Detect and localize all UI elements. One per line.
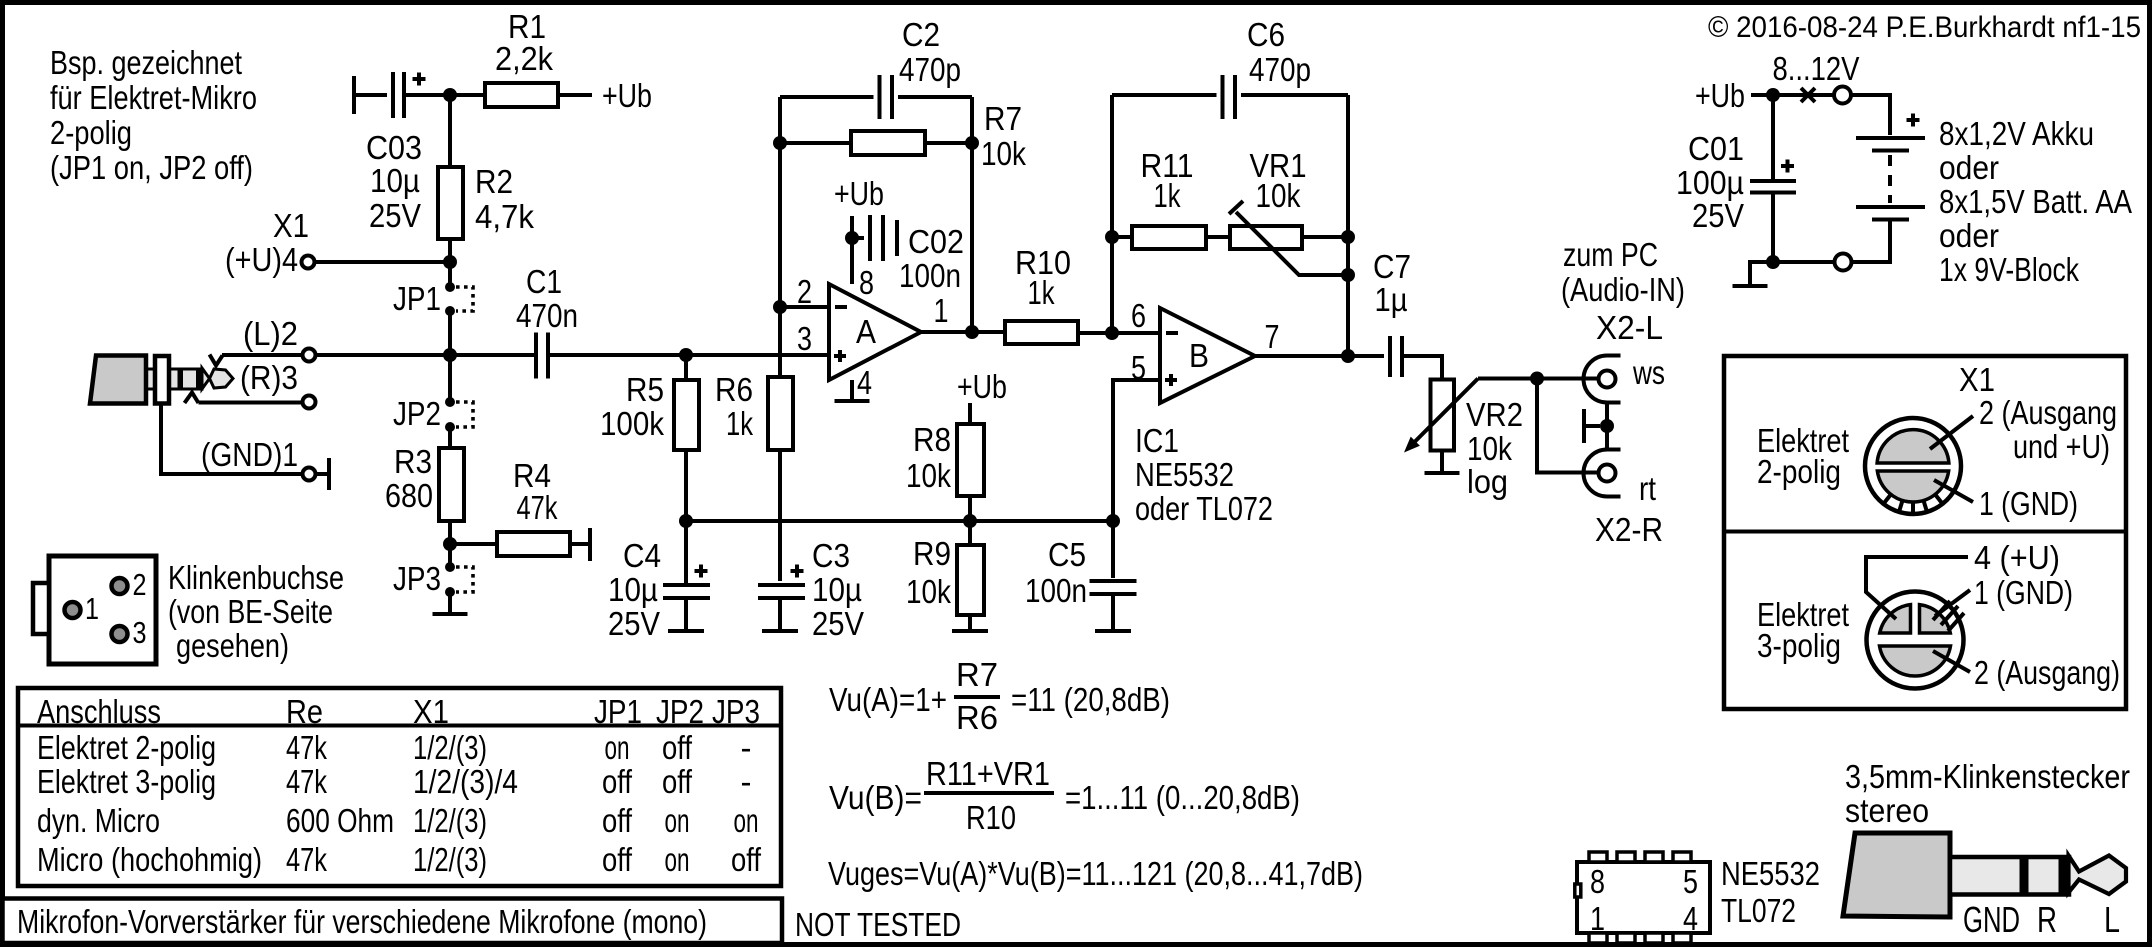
svg-text:NE5532: NE5532 xyxy=(1721,855,1820,892)
svg-text:=11 (20,8dB): =11 (20,8dB) xyxy=(1011,681,1170,718)
node rail pin5/C5 xyxy=(1106,514,1120,528)
svg-text:JP1: JP1 xyxy=(594,693,642,730)
svg-text:C4: C4 xyxy=(623,537,661,574)
R10 label xyxy=(1015,244,1071,311)
node rail R8/R9 xyxy=(963,514,977,528)
C4 label xyxy=(608,537,661,642)
svg-text:JP3: JP3 xyxy=(712,693,760,730)
table row Elektret 3-polig xyxy=(37,763,752,800)
svg-text:C03: C03 xyxy=(366,129,422,166)
svg-text:Klinkenbuchse: Klinkenbuchse xyxy=(168,559,344,596)
ground at supply xyxy=(1733,262,1774,286)
svg-text:1k: 1k xyxy=(1028,274,1055,311)
svg-text:100k: 100k xyxy=(600,405,664,442)
node C03/R1/R2 xyxy=(443,88,457,102)
ground at VR2 xyxy=(1425,471,1460,475)
IC DIP-8 package xyxy=(1575,852,1710,943)
svg-text:-: - xyxy=(741,729,752,766)
svg-text:8x1,2V Akku: 8x1,2V Akku xyxy=(1939,115,2094,152)
resistor R2 xyxy=(438,99,463,258)
svg-text:C2: C2 xyxy=(902,16,940,53)
svg-text:IC1: IC1 xyxy=(1135,422,1179,459)
x connection mark xyxy=(1801,88,1815,102)
resistor R1 xyxy=(454,83,592,107)
node R7 left xyxy=(773,136,787,150)
svg-text:+Ub: +Ub xyxy=(834,175,884,212)
terminal (GND)1 xyxy=(303,468,316,481)
R5 label xyxy=(600,371,664,442)
resistor R7 xyxy=(784,131,968,155)
svg-text:1: 1 xyxy=(934,292,949,329)
elektret 3-pin connector drawing xyxy=(1867,592,1964,689)
svg-text:25V: 25V xyxy=(369,197,421,234)
node main line / JP chain xyxy=(443,348,457,362)
ground at C4 xyxy=(668,629,704,633)
label 3,5mm-Klinkenstecker stereo xyxy=(1845,758,2130,829)
wire C1 to R5 node and op-amp A pin 3 xyxy=(550,353,829,357)
table row Elektret 2-polig xyxy=(37,729,752,766)
title bar box xyxy=(3,899,783,944)
capacitor C3 xyxy=(758,585,805,629)
leader pin 2 xyxy=(1930,416,1973,449)
svg-text:4 (+U): 4 (+U) xyxy=(1974,539,2060,576)
svg-text:X1: X1 xyxy=(413,693,449,730)
node pin2/R6/feedback xyxy=(773,300,787,314)
potentiometer VR2 xyxy=(1431,380,1455,451)
svg-text:X1: X1 xyxy=(273,207,309,244)
case tab hatch marks xyxy=(1933,601,1964,631)
leader pin 1 xyxy=(1934,480,1973,502)
jumper JP2 xyxy=(445,359,473,448)
svg-text:1 (GND): 1 (GND) xyxy=(1979,485,2078,522)
VR1 label xyxy=(1250,147,1307,214)
3.5mm plug shaft xyxy=(1950,857,2069,895)
svg-text:1/2/(3)/4: 1/2/(3)/4 xyxy=(413,763,518,800)
wire op-amp A output xyxy=(921,330,1005,334)
3.5mm plug ring band 1 xyxy=(2020,855,2029,897)
svg-text:R6: R6 xyxy=(956,699,998,736)
svg-text:Vu(A)=1+: Vu(A)=1+ xyxy=(829,681,947,718)
svg-text:log: log xyxy=(1467,463,1508,500)
svg-text:C6: C6 xyxy=(1247,16,1285,53)
terminal (R)3 xyxy=(303,396,316,409)
X2 shield ground tab xyxy=(1584,409,1600,443)
R4 label xyxy=(513,457,558,526)
resistor R8 xyxy=(957,403,984,517)
bias rail wire xyxy=(686,519,1113,523)
svg-text:(Audio-IN): (Audio-IN) xyxy=(1561,271,1685,308)
svg-text:Elektret 3-polig: Elektret 3-polig xyxy=(37,763,216,800)
svg-text:off: off xyxy=(662,763,693,800)
svg-text:2-polig: 2-polig xyxy=(50,114,132,151)
3.5mm plug body xyxy=(1843,833,1950,917)
R11 label xyxy=(1141,147,1194,214)
leader pin 2 ausgang xyxy=(1933,651,1970,672)
svg-text:R9: R9 xyxy=(913,535,951,572)
X1 pinout box xyxy=(1724,356,2126,709)
svg-text:100µ: 100µ xyxy=(1676,164,1744,201)
leader pin 4 xyxy=(1866,557,1968,619)
svg-text:=1...11 (0...20,8dB): =1...11 (0...20,8dB) xyxy=(1065,779,1300,816)
wire op-amp A pin 2 xyxy=(784,305,829,309)
resistor R9 xyxy=(957,525,984,629)
svg-text:off: off xyxy=(662,729,693,766)
C3 polarity plus xyxy=(791,565,804,578)
svg-text:8...12V: 8...12V xyxy=(1773,50,1860,87)
svg-text:stereo: stereo xyxy=(1845,792,1929,829)
U1B inverting input symbol xyxy=(1166,331,1178,335)
svg-text:680: 680 xyxy=(385,477,433,514)
svg-text:25V: 25V xyxy=(812,605,864,642)
svg-text:JP2: JP2 xyxy=(656,693,704,730)
svg-text:Vu(B)=: Vu(B)= xyxy=(829,779,922,816)
table row dyn. Micro xyxy=(37,802,759,839)
capacitor C02 xyxy=(856,215,897,261)
wire battery top xyxy=(1851,95,1890,135)
C5 label xyxy=(1025,536,1087,609)
node X2 shells xyxy=(1600,419,1614,433)
R8 label xyxy=(906,421,951,494)
svg-text:2-polig: 2-polig xyxy=(1757,453,1841,490)
svg-text:X2-R: X2-R xyxy=(1595,511,1663,548)
wire +Ub to node xyxy=(1751,93,1769,97)
svg-text:8: 8 xyxy=(1590,863,1605,900)
svg-text:für Elektret-Mikro: für Elektret-Mikro xyxy=(50,79,257,116)
svg-text:1k: 1k xyxy=(726,405,753,442)
svg-text:10µ: 10µ xyxy=(608,571,658,608)
jack contact L xyxy=(210,355,223,366)
svg-text:10k: 10k xyxy=(1256,177,1301,214)
C3 label xyxy=(812,537,864,642)
Klinkenbuchse label xyxy=(168,559,344,664)
jumper JP3 xyxy=(445,562,473,597)
svg-text:2: 2 xyxy=(797,273,812,310)
battery choice labels xyxy=(1939,115,2132,288)
svg-text:NE5532: NE5532 xyxy=(1135,456,1234,493)
wire R3 to JP3 xyxy=(448,521,452,563)
svg-text:+Ub: +Ub xyxy=(957,368,1007,405)
svg-text:GND: GND xyxy=(1963,899,2020,940)
wire VR2 wiper to X2 xyxy=(1478,377,1599,381)
svg-text:off: off xyxy=(602,841,633,878)
svg-text:4: 4 xyxy=(1683,900,1698,937)
node +Ub/C01 xyxy=(1766,88,1780,102)
svg-text:2 (Ausgang): 2 (Ausgang) xyxy=(1974,654,2120,691)
connector X2-L xyxy=(1584,356,1621,403)
svg-text:10k: 10k xyxy=(981,135,1026,172)
jack contact R xyxy=(185,393,199,404)
svg-text:on: on xyxy=(605,729,630,766)
svg-text:off: off xyxy=(731,841,762,878)
svg-text:470n: 470n xyxy=(516,297,578,334)
wire to battery plug xyxy=(1777,93,1834,97)
U1A inverting input symbol xyxy=(835,305,847,309)
wire L to node xyxy=(316,353,535,357)
svg-text:10k: 10k xyxy=(1467,430,1512,467)
X2 shell link wire xyxy=(1605,403,1609,450)
node R5 tap xyxy=(679,348,693,362)
R3 label xyxy=(385,443,433,514)
svg-text:(R)3: (R)3 xyxy=(240,359,298,396)
svg-text:600 Ohm: 600 Ohm xyxy=(286,802,394,839)
svg-text:Bsp. gezeichnet: Bsp. gezeichnet xyxy=(50,44,242,81)
C1 label xyxy=(516,263,578,334)
C6 label xyxy=(1247,16,1311,88)
svg-text:L: L xyxy=(2104,899,2120,940)
svg-text:8x1,5V Batt. AA: 8x1,5V Batt. AA xyxy=(1939,183,2132,220)
svg-text:10µ: 10µ xyxy=(812,571,862,608)
svg-text:10k: 10k xyxy=(906,573,951,610)
svg-text:oder: oder xyxy=(1939,149,1999,186)
svg-text:R2: R2 xyxy=(475,163,513,200)
svg-text:(L)2: (L)2 xyxy=(243,315,298,352)
svg-text:1: 1 xyxy=(85,591,99,626)
svg-text:47k: 47k xyxy=(517,489,558,526)
svg-text:NOT TESTED: NOT TESTED xyxy=(795,906,961,943)
svg-text:on: on xyxy=(665,802,690,839)
leader pin 1 gnd xyxy=(1935,590,1970,616)
connector X2-R xyxy=(1584,450,1621,497)
capacitor C2 xyxy=(780,75,972,119)
VR1 wiper arrow xyxy=(1229,201,1344,275)
svg-text:6: 6 xyxy=(1131,297,1146,334)
svg-text:2: 2 xyxy=(133,567,147,602)
svg-text:gesehen): gesehen) xyxy=(176,627,289,664)
svg-text:(JP1 on, JP2 off): (JP1 on, JP2 off) xyxy=(50,149,253,186)
IC type label xyxy=(1721,855,1820,929)
IC1 label xyxy=(1135,422,1273,527)
svg-text:R: R xyxy=(2037,899,2057,940)
node rail R5 xyxy=(679,514,693,528)
formula Vu(B) xyxy=(829,755,1300,836)
VR2 label xyxy=(1466,396,1523,500)
svg-text:X2-L: X2-L xyxy=(1596,309,1663,346)
svg-text:47k: 47k xyxy=(286,841,327,878)
connection table box xyxy=(18,688,781,886)
terminal (L)2 xyxy=(303,349,316,362)
ground at R9 xyxy=(952,629,988,633)
svg-text:A: A xyxy=(856,313,876,350)
3.5mm plug tip xyxy=(2069,856,2127,895)
svg-text:(GND)1: (GND)1 xyxy=(201,436,298,473)
svg-text:100n: 100n xyxy=(1025,572,1087,609)
R2 label xyxy=(475,163,534,235)
wire contact to terminal L xyxy=(222,353,303,357)
wire R stub xyxy=(199,401,303,405)
wire op-amp B output xyxy=(1255,354,1384,358)
C7 label xyxy=(1373,248,1411,318)
battery cell 1 xyxy=(1856,138,1925,151)
svg-text:5: 5 xyxy=(1683,863,1698,900)
svg-text:Micro (hochohmig): Micro (hochohmig) xyxy=(37,841,262,878)
svg-text:C3: C3 xyxy=(812,537,850,574)
svg-text:C7: C7 xyxy=(1373,248,1411,285)
feedback B right vertical xyxy=(1346,95,1350,352)
Klinkenbuchse connector drawing xyxy=(33,556,156,664)
capacitor C6 xyxy=(1112,75,1348,119)
battery plus sign xyxy=(1907,114,1920,127)
svg-text:R5: R5 xyxy=(626,371,664,408)
svg-text:1 (GND): 1 (GND) xyxy=(1974,574,2073,611)
jumper JP1 xyxy=(445,266,473,351)
svg-text:1/2/(3): 1/2/(3) xyxy=(413,729,487,766)
svg-text:R3: R3 xyxy=(394,443,432,480)
svg-text:JP1: JP1 xyxy=(393,280,441,317)
svg-text:4: 4 xyxy=(857,364,872,401)
ground at C3 xyxy=(762,629,798,633)
svg-text:C01: C01 xyxy=(1688,130,1744,167)
elektret 2-pin rim ticks xyxy=(1884,494,1942,513)
capacitor C1 xyxy=(536,333,548,379)
wire op-amp A pin 4 xyxy=(850,380,854,399)
node output B xyxy=(1341,349,1355,363)
node R2/X1.4/JP1 xyxy=(443,255,457,269)
jack sleeve contact bar xyxy=(316,458,330,490)
svg-text:3: 3 xyxy=(133,615,147,650)
svg-text:R11+VR1: R11+VR1 xyxy=(926,755,1050,792)
R9 label xyxy=(906,535,951,610)
svg-text:+Ub: +Ub xyxy=(602,77,652,114)
svg-text:2 (Ausgang: 2 (Ausgang xyxy=(1979,394,2117,431)
table row Micro hochohmig xyxy=(37,841,762,878)
svg-text:10µ: 10µ xyxy=(370,162,420,199)
svg-text:oder TL072: oder TL072 xyxy=(1135,490,1273,527)
op-amp U1B triangle xyxy=(1160,308,1255,403)
node pin8/C02 xyxy=(845,231,859,245)
wire branch to X2-R xyxy=(1537,379,1599,473)
R1 label xyxy=(495,8,553,77)
label Elektret 2-polig xyxy=(1757,422,1849,490)
resistor R3 xyxy=(439,448,464,521)
node R3/R4/JP3 xyxy=(443,537,457,551)
svg-text:X1: X1 xyxy=(1959,361,1995,398)
svg-text:TL072: TL072 xyxy=(1721,892,1796,929)
svg-text:470p: 470p xyxy=(1249,51,1311,88)
svg-text:JP3: JP3 xyxy=(393,560,441,597)
svg-text:on: on xyxy=(734,802,759,839)
svg-text:(+U)4: (+U)4 xyxy=(225,241,298,278)
wire X1.4 to node xyxy=(315,260,447,264)
resistor R4 xyxy=(454,532,588,556)
C03 value label xyxy=(366,129,422,234)
svg-text:R6: R6 xyxy=(715,371,753,408)
battery cell 2 xyxy=(1856,207,1925,220)
label zum PC xyxy=(1561,236,1685,308)
C4 polarity plus xyxy=(695,565,708,578)
VR2 wiper arrow xyxy=(1404,379,1478,453)
note example text xyxy=(50,44,257,186)
capacitor C7 xyxy=(1390,336,1442,380)
svg-text:R7: R7 xyxy=(984,100,1022,137)
capacitor C4 xyxy=(663,525,710,629)
battery minus terminal circle xyxy=(1835,254,1852,271)
svg-text:470p: 470p xyxy=(899,51,961,88)
svg-text:-: - xyxy=(741,763,752,800)
node R11 left xyxy=(1105,230,1119,244)
svg-text:8: 8 xyxy=(859,264,874,301)
feedback wire left vertical xyxy=(778,97,782,303)
svg-text:Mikrofon-Vorverstärker für ver: Mikrofon-Vorverstärker für verschiedene … xyxy=(17,903,707,940)
svg-text:+Ub: +Ub xyxy=(1695,77,1745,114)
svg-text:VR2: VR2 xyxy=(1466,396,1523,433)
resistor R5 xyxy=(674,359,699,517)
resistor R10 xyxy=(1005,321,1160,344)
svg-text:Anschluss: Anschluss xyxy=(37,693,161,730)
svg-text:Vuges=Vu(A)*Vu(B)=11...121 (20: Vuges=Vu(A)*Vu(B)=11...121 (20,8...41,7d… xyxy=(828,855,1363,892)
node R7 right xyxy=(965,136,979,150)
resistor R6 xyxy=(768,311,793,581)
svg-text:C02: C02 xyxy=(908,223,964,260)
node X2 split xyxy=(1530,372,1544,386)
battery plus terminal circle xyxy=(1834,87,1851,104)
wire VR2 to ground xyxy=(1440,451,1444,472)
svg-text:3,5mm-Klinkenstecker: 3,5mm-Klinkenstecker xyxy=(1845,758,2130,795)
svg-text:ws: ws xyxy=(1632,354,1665,391)
svg-text:dyn. Micro: dyn. Micro xyxy=(37,802,160,839)
capacitor C01 xyxy=(1750,99,1796,258)
svg-text:1/2/(3): 1/2/(3) xyxy=(413,841,487,878)
svg-text:25V: 25V xyxy=(1692,197,1744,234)
svg-text:Re: Re xyxy=(286,693,323,730)
svg-text:25V: 25V xyxy=(608,605,660,642)
svg-text:47k: 47k xyxy=(286,763,327,800)
table header row xyxy=(37,693,760,730)
svg-text:Elektret 2-polig: Elektret 2-polig xyxy=(37,729,216,766)
C01 polarity plus xyxy=(1781,160,1794,173)
C01 label xyxy=(1676,130,1744,234)
svg-text:1µ: 1µ xyxy=(1375,281,1408,318)
R6 label xyxy=(715,371,753,442)
battery dashed link xyxy=(1888,155,1892,203)
svg-text:2,2k: 2,2k xyxy=(495,40,553,77)
svg-text:47k: 47k xyxy=(286,729,327,766)
svg-text:und +U): und +U) xyxy=(2013,428,2110,465)
terminal X1 pin 4 xyxy=(302,256,315,269)
U1A non-inverting input symbol xyxy=(834,350,846,362)
svg-text:© 2016-08-24 P.E.Burkhardt nf1: © 2016-08-24 P.E.Burkhardt nf1-15 xyxy=(1708,11,2141,44)
svg-text:R7: R7 xyxy=(956,656,998,693)
label 2 (Ausgang und +U) xyxy=(1979,394,2117,465)
svg-text:1: 1 xyxy=(1590,900,1605,937)
feedback B vertical at R11 xyxy=(1110,95,1114,329)
wire battery bottom xyxy=(1852,221,1891,262)
ground at C5 xyxy=(1095,629,1131,633)
C2 label xyxy=(899,16,961,88)
svg-text:rt: rt xyxy=(1639,470,1656,507)
resistor R11 xyxy=(1116,226,1230,249)
svg-text:C5: C5 xyxy=(1048,536,1086,573)
node C01 minus xyxy=(1766,255,1780,269)
svg-text:on: on xyxy=(665,841,690,878)
svg-text:B: B xyxy=(1189,337,1209,374)
capacitor C5 xyxy=(1090,525,1137,629)
svg-text:zum PC: zum PC xyxy=(1563,236,1658,273)
svg-text:off: off xyxy=(602,802,633,839)
node pin6/R10/R11 branch xyxy=(1105,326,1119,340)
3.5mm plug ring band 2 xyxy=(2059,855,2069,897)
svg-text:10k: 10k xyxy=(906,457,951,494)
ground at JP3 xyxy=(433,596,468,614)
op-amp U1A triangle xyxy=(829,284,921,380)
elektret 2-pin connector drawing xyxy=(1865,418,1961,514)
svg-text:oder: oder xyxy=(1939,217,1999,254)
svg-text:R10: R10 xyxy=(966,799,1016,836)
C03 polarity plus xyxy=(413,73,426,86)
svg-text:off: off xyxy=(602,763,633,800)
svg-text:1k: 1k xyxy=(1154,177,1181,214)
svg-text:100n: 100n xyxy=(899,257,961,294)
U1B non-inverting input symbol xyxy=(1165,374,1177,386)
